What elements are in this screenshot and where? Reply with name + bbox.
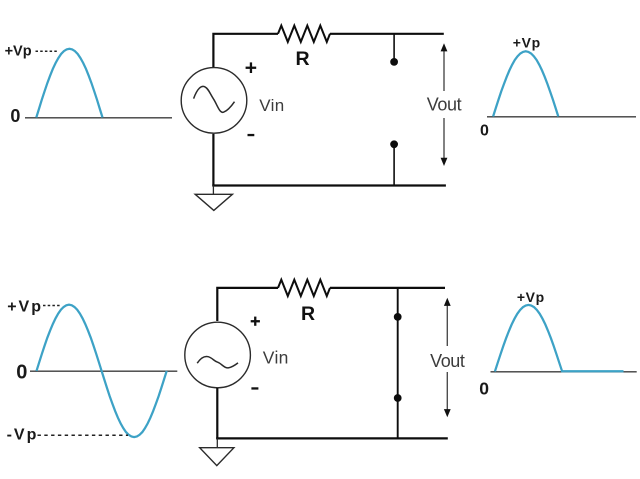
sine symbol inside source (top) (194, 86, 235, 112)
svg-text:R: R (295, 48, 309, 70)
svg-text:+Vp: +Vp (7, 298, 43, 315)
node: junction dot upper (bottom circuit) (394, 313, 402, 321)
input full sine waveform (bottom-left) (37, 305, 167, 437)
Vout measurement arrow (bottom) (446, 301, 448, 347)
node 0-axis baseline of input waveform (bottom-left) (30, 370, 177, 372)
output half-wave rectified waveform (bottom-right) (495, 305, 624, 372)
svg-text:0: 0 (479, 379, 489, 399)
resistor R (top) (278, 26, 330, 42)
svg-text:-Vp: -Vp (7, 426, 39, 443)
AC source U2 (bottom) (185, 322, 251, 388)
wire: output bottom stub (top circuit) (393, 144, 395, 185)
svg-text:Vout: Vout (430, 351, 465, 371)
svg-text:0: 0 (480, 123, 489, 140)
label - polarity (top source) (248, 134, 255, 136)
label + polarity (bottom source) (251, 320, 260, 322)
wire: bottom rail (top circuit) (212, 184, 446, 186)
wire: top rail left segment (source to resistor) (213, 34, 278, 67)
wire: top rail right segment (resistor to output) (330, 33, 444, 35)
Vout measurement arrow (top) (443, 46, 445, 91)
ground (top) (195, 194, 232, 210)
node: junction dot lower (bottom circuit) (394, 394, 402, 402)
wire: stub to ground symbol (bottom) (216, 438, 218, 447)
resistor R (bottom) (278, 280, 330, 296)
dashed leader to +Vp peak (top-left) (36, 50, 59, 52)
wire: source bottom to ground rail (bottom circuit) (216, 388, 218, 439)
svg-text:+Vp: +Vp (513, 34, 541, 50)
AC source U1 (top) (181, 68, 247, 134)
wire: bottom rail (bottom circuit) (216, 437, 448, 439)
svg-text:R: R (301, 303, 315, 325)
node: output terminal top (dot) (390, 58, 398, 66)
svg-text:+Vp: +Vp (5, 44, 32, 60)
label + polarity (top source) (246, 67, 257, 69)
node 0-axis baseline of input waveform (top-left) (25, 117, 172, 119)
svg-text:Vout: Vout (427, 95, 462, 115)
wire: output top stub (top circuit) (393, 34, 395, 62)
wire: top rail right segment (resistor to output, bottom circuit) (330, 287, 445, 289)
dashed leader to -Vp trough (bottom-left) (38, 434, 129, 436)
svg-text:Vin: Vin (259, 96, 284, 115)
node: output terminal bottom (dot) (390, 140, 398, 148)
svg-text:+Vp: +Vp (517, 289, 545, 305)
ground (bottom) (200, 448, 234, 466)
sine symbol inside source (bottom) (197, 356, 238, 367)
node 0-axis baseline of output waveform (top-right) (487, 116, 636, 118)
output half-sine waveform (top-right) (493, 51, 558, 116)
svg-text:0: 0 (16, 361, 27, 383)
dashed leader to +Vp peak (bottom-left) (43, 305, 61, 307)
input half-sine waveform (top-left) (36, 49, 102, 118)
wire: output branch vertical (bottom circuit) (397, 288, 399, 439)
node 0-axis baseline of output waveform (bottom-right) (491, 371, 637, 373)
label - polarity (bottom source) (251, 387, 258, 389)
wire: stub to ground symbol (top) (212, 186, 214, 195)
svg-text:0: 0 (10, 106, 20, 126)
svg-text:Vin: Vin (263, 348, 289, 368)
wire: top rail left segment (source to resistor, bottom circuit) (217, 288, 278, 321)
wire: source bottom to ground rail (top) (212, 134, 214, 187)
